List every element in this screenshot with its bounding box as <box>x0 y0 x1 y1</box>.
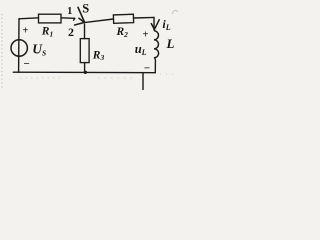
svg-text:+: + <box>22 25 28 36</box>
wire R1 to switch terminal 1 <box>61 17 75 20</box>
wire R3 bottom to bottom wire <box>84 63 86 73</box>
switch S arrowhead <box>75 18 85 25</box>
scan speckle <box>20 74 176 78</box>
wire top-left from source to R1 <box>19 18 39 19</box>
wire coil bottom to bottom corner <box>154 58 155 73</box>
svg-text:2: 2 <box>68 25 74 39</box>
resistor R3 <box>80 39 89 63</box>
svg-text:L: L <box>166 36 175 51</box>
resistor R2 <box>113 14 133 23</box>
wire tick at terminal 1 <box>74 18 75 20</box>
page edge artifact <box>1 14 3 88</box>
voltage source Us circle <box>11 40 27 56</box>
resistor R1 <box>39 14 62 23</box>
wire node 2 down to R3 <box>84 24 86 39</box>
scan speckle <box>172 10 178 14</box>
inductor L coil <box>154 31 159 58</box>
svg-text:+: + <box>143 30 149 41</box>
svg-text:S: S <box>82 1 89 15</box>
svg-text:−: − <box>144 62 150 74</box>
wire stub below bottom wire <box>142 73 144 90</box>
wire left branch vertical through source <box>18 19 20 73</box>
bottom wire <box>13 71 155 74</box>
wire right branch down to coil <box>153 17 155 30</box>
junction dot node between R3 and bottom wire <box>84 71 87 74</box>
current arrow iL head <box>151 20 159 30</box>
wire R2 to top-right corner <box>134 16 155 19</box>
wire switch pivot to R2 <box>85 19 113 22</box>
svg-text:1: 1 <box>67 6 72 17</box>
svg-text:−: − <box>23 58 29 70</box>
switch S blade <box>78 7 84 22</box>
